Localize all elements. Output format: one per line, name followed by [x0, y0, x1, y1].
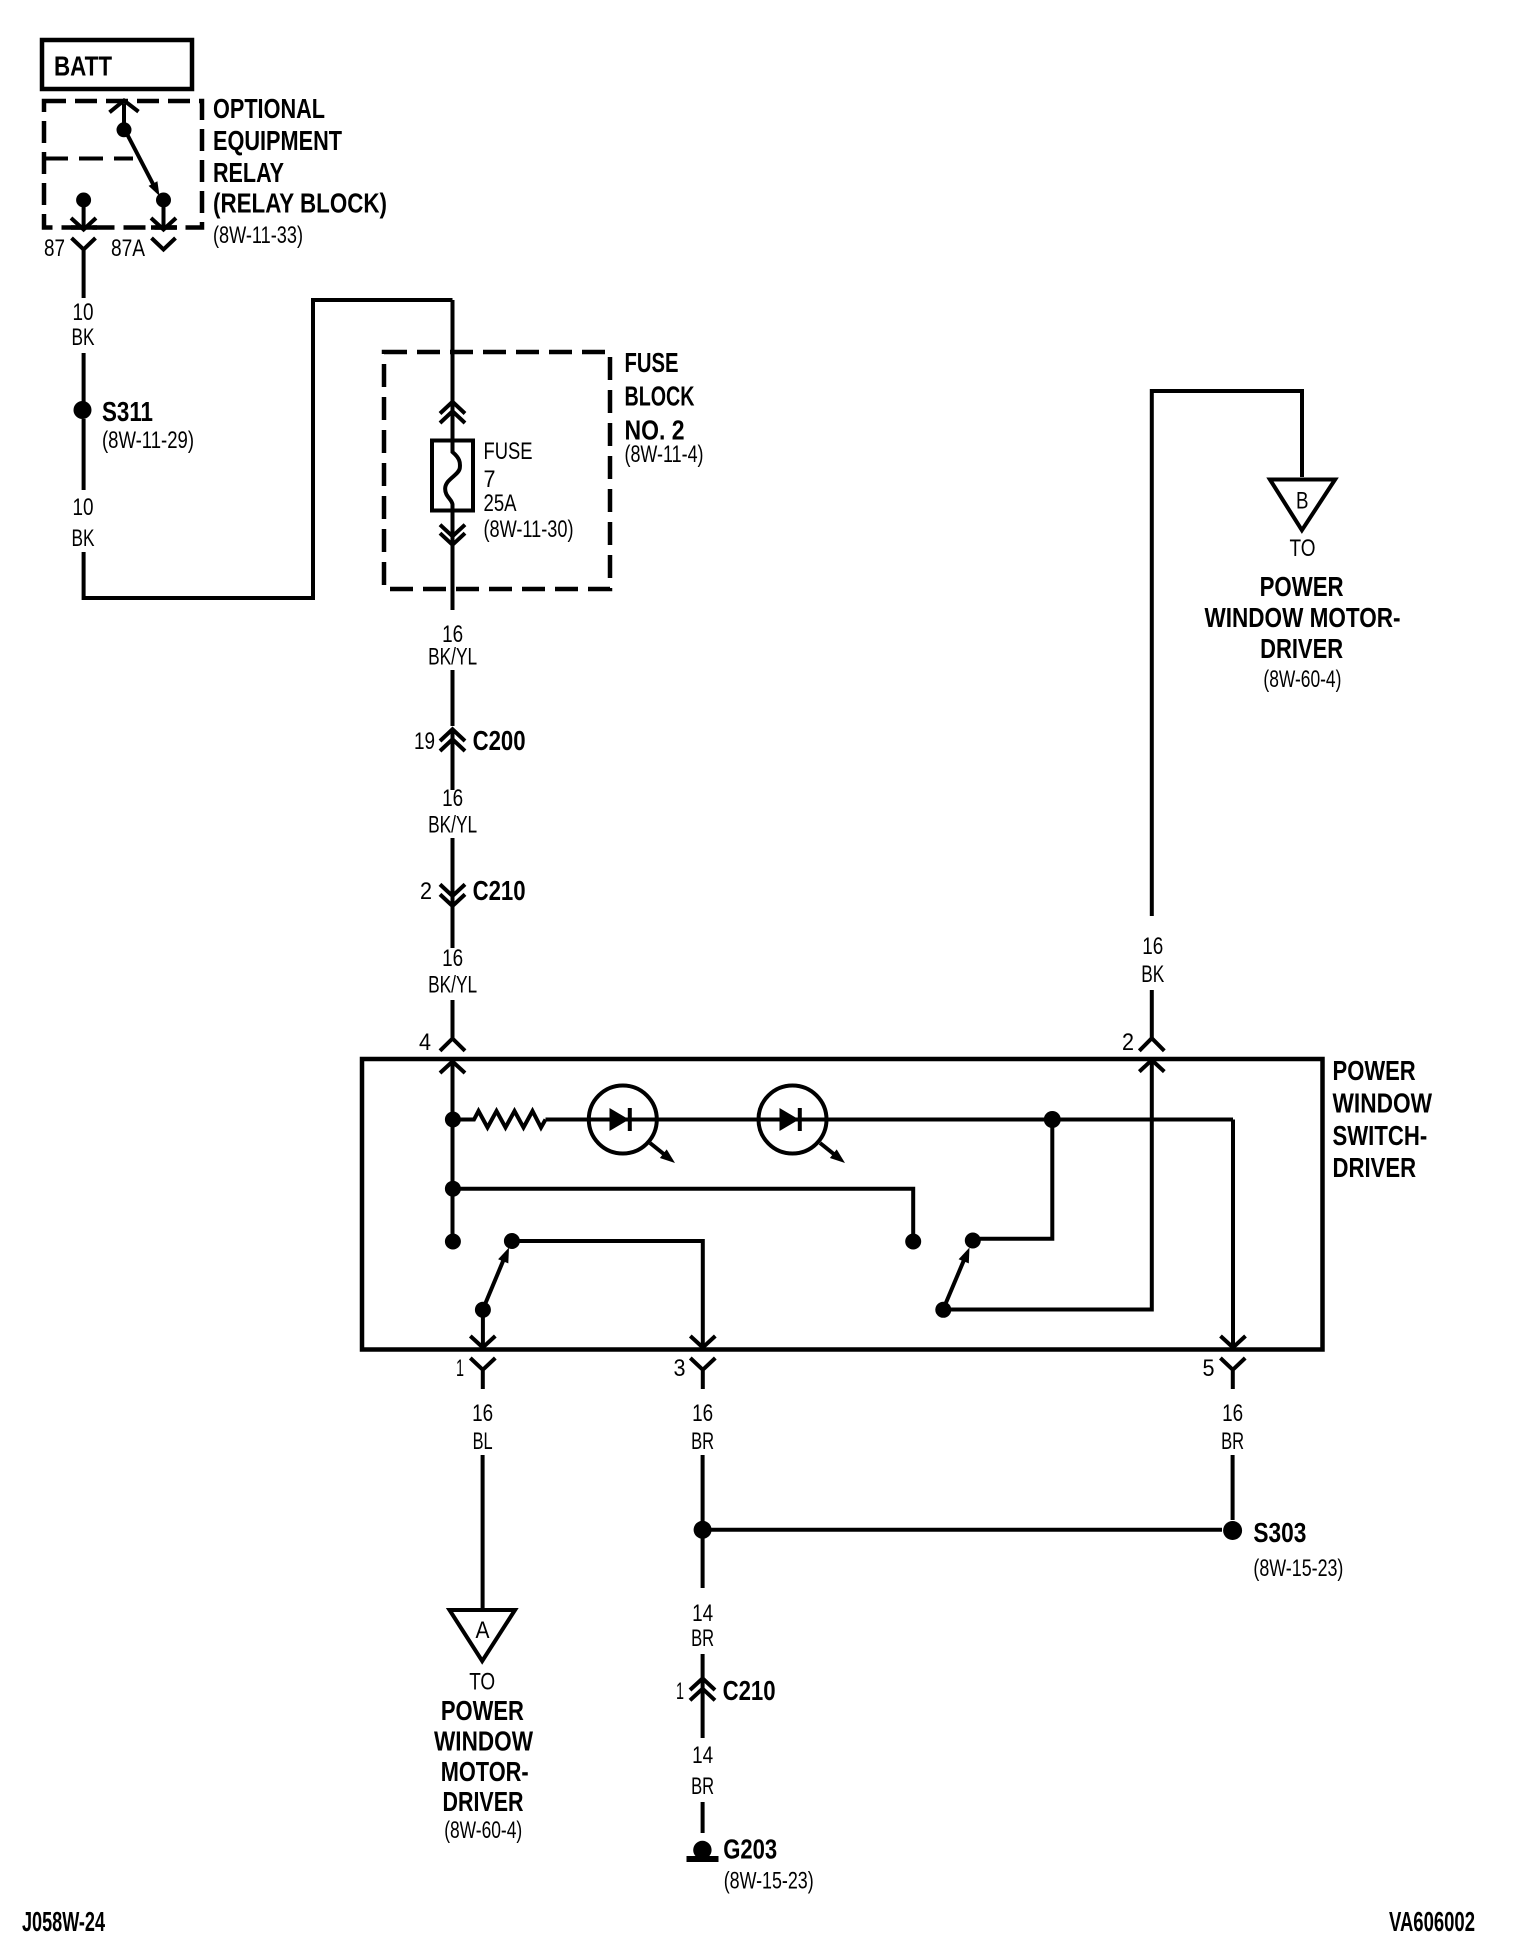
stub end node: [905, 1234, 921, 1250]
connector C210 chevrons (up) ground leg: [701, 1679, 705, 1706]
svg-text:S311: S311: [102, 396, 153, 427]
destination label B: [1205, 535, 1401, 693]
svg-text:10: 10: [73, 299, 94, 326]
svg-text:BK/YL: BK/YL: [428, 812, 477, 839]
left switch throw node: [504, 1233, 520, 1249]
connector C200 chevrons (up): [451, 729, 455, 752]
relay name label: [213, 93, 387, 249]
node where lamp rail meets pin5 drop: [1044, 1111, 1061, 1128]
branch wire to S303: [703, 1528, 1222, 1532]
svg-text:16: 16: [472, 1400, 493, 1427]
node on feed wire (top): [445, 1112, 461, 1128]
svg-text:87A: 87A: [111, 235, 145, 262]
wire 14 BR to ground: [701, 1706, 705, 1738]
svg-text:BR: BR: [1221, 1428, 1244, 1455]
svg-text:A: A: [476, 1617, 490, 1644]
fuse value label: [484, 438, 574, 543]
pin 2 crossing chevrons: [1139, 1038, 1164, 1051]
wire through LEDs to right side: [546, 1118, 1234, 1122]
wire pin 5 down to S303: [1231, 1455, 1235, 1520]
svg-text:B: B: [1296, 488, 1309, 515]
svg-text:BR: BR: [691, 1625, 714, 1652]
wire into fuse: [451, 300, 455, 440]
svg-text:J058W-24: J058W-24: [22, 1906, 105, 1937]
svg-text:2: 2: [1122, 1029, 1134, 1056]
optional equipment relay (relay block) dashed outline: [44, 101, 202, 228]
left switch pole node: [475, 1302, 491, 1318]
pin 1 connector fork: [470, 1358, 495, 1389]
wire drop to pin 5: [1231, 1120, 1235, 1346]
fuse 7 25A body: [432, 441, 473, 511]
svg-text:25A: 25A: [484, 490, 517, 517]
wire 16 BL down to A: [481, 1455, 485, 1608]
wire 16 BK/YL between C200 and C210: [451, 752, 455, 790]
svg-text:FUSE: FUSE: [484, 438, 533, 465]
off-page connector A triangle: [450, 1610, 516, 1661]
left switch arm: [485, 1260, 504, 1306]
svg-text:10: 10: [73, 494, 94, 521]
branch from rail node down to right switch throw: [973, 1120, 1052, 1239]
svg-text:(8W-60-4): (8W-60-4): [444, 1817, 522, 1844]
svg-text:WINDOW MOTOR-: WINDOW MOTOR-: [1205, 602, 1401, 633]
svg-text:DRIVER: DRIVER: [443, 1786, 524, 1817]
wire segment below S311: [82, 419, 86, 490]
svg-text:S303: S303: [1253, 1517, 1306, 1548]
svg-text:FUSE: FUSE: [625, 347, 679, 378]
svg-text:BLOCK: BLOCK: [625, 381, 695, 412]
relay pin 87 connector fork: [72, 238, 96, 250]
splice node S303: [1223, 1517, 1343, 1582]
svg-text:BK: BK: [72, 324, 95, 351]
svg-text:(RELAY BLOCK): (RELAY BLOCK): [213, 188, 387, 219]
svg-text:1: 1: [676, 1678, 684, 1705]
off-page connector B triangle: [1270, 480, 1335, 531]
svg-text:3: 3: [674, 1355, 686, 1382]
svg-text:OPTIONAL: OPTIONAL: [213, 93, 325, 124]
relay pin 87 lead: [82, 206, 86, 227]
svg-text:(8W-11-4): (8W-11-4): [625, 441, 704, 468]
svg-text:C200: C200: [473, 725, 526, 756]
splice node S311: [74, 401, 92, 419]
ground G203: [687, 1834, 814, 1895]
svg-text:7: 7: [484, 466, 496, 493]
pin 3 connector fork: [690, 1358, 715, 1389]
svg-text:EQUIPMENT: EQUIPMENT: [213, 125, 342, 156]
svg-text:5: 5: [1203, 1355, 1215, 1382]
svg-text:19: 19: [414, 728, 435, 755]
wire 10 BK from relay 87: [82, 250, 86, 299]
svg-text:BK: BK: [72, 525, 95, 552]
svg-text:(8W-15-23): (8W-15-23): [724, 1868, 814, 1895]
svg-text:WINDOW: WINDOW: [1333, 1088, 1433, 1119]
svg-text:(8W-11-29): (8W-11-29): [102, 427, 194, 454]
right switch pole node: [935, 1302, 951, 1318]
relay common terminal node: [117, 122, 132, 137]
wire to C200: [451, 670, 455, 726]
svg-text:G203: G203: [723, 1834, 777, 1865]
node on feed wire (bottom): [445, 1234, 461, 1250]
svg-text:SWITCH-: SWITCH-: [1333, 1120, 1428, 1151]
wire 16 BK from B routing to pin 2: [1152, 391, 1302, 916]
svg-text:14: 14: [692, 1742, 713, 1769]
wire segment to S311: [82, 353, 86, 402]
svg-text:DRIVER: DRIVER: [1333, 1152, 1417, 1183]
svg-text:87: 87: [44, 235, 65, 262]
power window switch-driver box: [362, 1059, 1323, 1350]
svg-text:BK/YL: BK/YL: [428, 644, 477, 671]
in-line connector chevrons (up) above fuse: [440, 402, 465, 414]
fuse block name label: [625, 347, 704, 468]
relay pin 87A connector fork: [152, 238, 176, 250]
svg-text:TO: TO: [469, 1668, 495, 1695]
internal feed wire from pin 4: [451, 1062, 455, 1242]
svg-text:4: 4: [419, 1029, 431, 1056]
svg-text:1: 1: [456, 1355, 464, 1382]
battery feed box BATT: [42, 40, 192, 89]
relay terminal 30 arrow to BATT: [122, 104, 126, 130]
relay bottom edge dash segments under pins: [71, 225, 177, 230]
svg-text:(8W-11-30): (8W-11-30): [484, 516, 574, 543]
svg-text:BL: BL: [473, 1428, 493, 1455]
connector C210 chevrons (down): [451, 884, 455, 908]
middle rail wire to stub node: [453, 1189, 913, 1234]
svg-text:(8W-15-23): (8W-15-23): [1253, 1555, 1343, 1582]
svg-text:C210: C210: [723, 1675, 776, 1706]
destination label A: [434, 1668, 533, 1844]
wire routing to fuse block: [84, 300, 453, 598]
switch name label: [1333, 1055, 1433, 1183]
pin 4 crossing chevrons: [440, 1039, 465, 1051]
in-line connector chevrons (down) below fuse: [440, 525, 465, 537]
fuse block no. 2 dashed outline: [384, 352, 610, 589]
wire 16 BK/YL to switch pin 4: [451, 908, 455, 948]
right switch throw node: [965, 1233, 981, 1249]
svg-text:RELAY: RELAY: [213, 157, 284, 188]
wire from right switch pole to pin 2: [943, 1062, 1152, 1310]
svg-text:POWER: POWER: [441, 1695, 524, 1726]
svg-text:POWER: POWER: [1333, 1055, 1416, 1086]
LED lamp 1: [589, 1086, 675, 1164]
svg-text:16: 16: [1142, 933, 1163, 960]
resistor (illumination): [460, 1111, 546, 1128]
svg-text:16: 16: [442, 785, 463, 812]
svg-text:BATT: BATT: [54, 51, 112, 82]
relay internal divider (dashed): [44, 157, 133, 161]
wire to C210 ground side: [701, 1654, 705, 1678]
pin 3 crossing chevron: [690, 1336, 715, 1348]
relay pin 87A lead: [162, 206, 166, 227]
wire pin 3 down to splice: [701, 1455, 705, 1521]
svg-text:C210: C210: [473, 875, 526, 906]
node on feed wire (middle): [445, 1181, 461, 1197]
pin 5 connector fork: [1220, 1358, 1245, 1389]
wire from left throw node to pin 3: [512, 1241, 703, 1346]
svg-text:16: 16: [442, 945, 463, 972]
svg-text:(8W-11-33): (8W-11-33): [213, 222, 303, 249]
svg-text:MOTOR-: MOTOR-: [441, 1756, 529, 1787]
svg-text:WINDOW: WINDOW: [434, 1726, 533, 1757]
svg-text:16: 16: [692, 1400, 713, 1427]
svg-text:VA606002: VA606002: [1389, 1906, 1475, 1937]
svg-text:DRIVER: DRIVER: [1260, 633, 1343, 664]
svg-text:BK/YL: BK/YL: [428, 972, 477, 999]
relay movable contact arm: [127, 133, 154, 184]
svg-text:2: 2: [420, 878, 432, 905]
svg-text:14: 14: [692, 1600, 713, 1627]
relay pin 87A node: [156, 193, 171, 208]
svg-text:BK: BK: [1141, 961, 1164, 988]
splice node on pin 3 wire: [694, 1521, 712, 1539]
pin 5 crossing chevron: [1221, 1336, 1246, 1348]
svg-text:POWER: POWER: [1260, 571, 1344, 602]
svg-text:16: 16: [1222, 1400, 1243, 1427]
svg-text:BR: BR: [691, 1428, 714, 1455]
pin 1 crossing chevron: [470, 1336, 495, 1348]
wire below splice: [701, 1538, 705, 1588]
wire into pin 2: [1150, 990, 1154, 1039]
svg-text:TO: TO: [1290, 535, 1316, 562]
relay pin 87 node: [76, 193, 91, 208]
right switch arm: [945, 1260, 964, 1306]
LED lamp 2: [759, 1086, 846, 1164]
svg-text:(8W-60-4): (8W-60-4): [1263, 666, 1341, 693]
fuse element curve: [445, 441, 460, 510]
svg-text:BR: BR: [691, 1773, 714, 1800]
wire below fuse: [451, 510, 455, 610]
wire from left switch pole to pin 1: [481, 1310, 485, 1346]
